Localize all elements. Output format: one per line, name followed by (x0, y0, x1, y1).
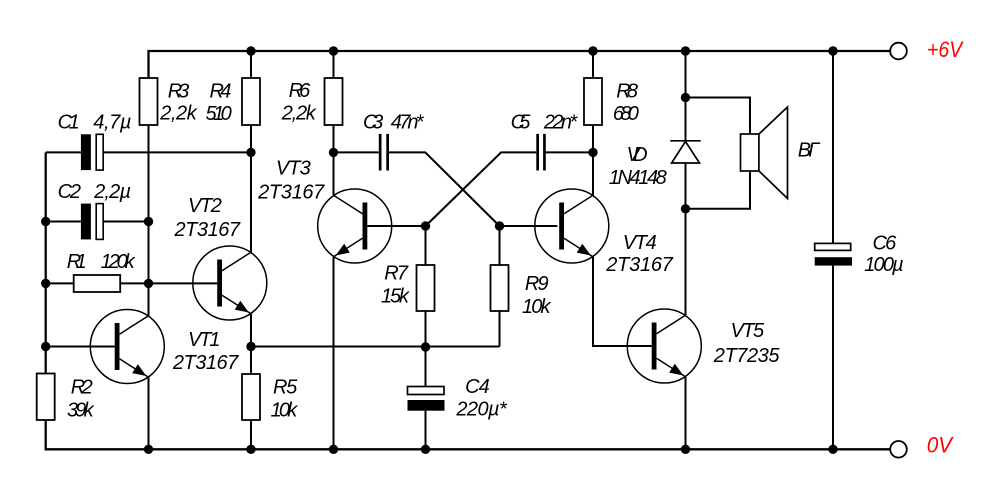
node R7 top / VT3 base (421, 221, 430, 230)
svg-text:VT2: VT2 (188, 195, 222, 217)
wire R9 bottom to C4 node (499, 311, 501, 347)
wire speaker top branch (686, 98, 751, 135)
wire C1 row from left rail to node at R4 column (46, 151, 251, 153)
wire speaker bottom branch (686, 171, 751, 209)
resistor R8 680 (584, 78, 602, 125)
svg-text:R5: R5 (273, 377, 298, 399)
resistor R6 2,2k (325, 78, 343, 125)
svg-text:C2: C2 (58, 181, 81, 203)
wire C4 top lead (425, 347, 427, 387)
svg-text:C4: C4 (465, 376, 490, 398)
wire R4 column: R4 bottom to VT2 collector (250, 125, 252, 252)
resistor R3 2,2k (140, 78, 158, 125)
node R6/C3/VT3 collector (329, 148, 338, 157)
svg-text:R9: R9 (525, 273, 549, 295)
node R5 bottom rail (246, 445, 255, 454)
node VT1 base left rail (41, 342, 50, 351)
node speaker top (681, 93, 690, 102)
svg-text:22n*: 22n* (543, 112, 579, 134)
svg-text:10k: 10k (271, 400, 299, 422)
resistor R1 120k (74, 275, 121, 292)
svg-text:R8: R8 (616, 80, 638, 102)
wire emitter node to C4 node and on to R9 bottom corner (251, 346, 500, 348)
wire bottom 0V rail (46, 420, 890, 449)
svg-text:39k: 39k (67, 400, 95, 422)
svg-text:100µ: 100µ (864, 254, 903, 276)
node R1/VT2 base/VT1 collector (144, 279, 153, 288)
wire R9 top lead (499, 226, 501, 265)
svg-text:47n*: 47n* (391, 112, 425, 134)
wire VT2 emitter to R5, node (250, 314, 252, 374)
wire R8 bottom to VT4 collector (592, 125, 594, 195)
svg-text:2T3167: 2T3167 (257, 182, 325, 204)
svg-text:2T3167: 2T3167 (174, 219, 241, 241)
wire R3 bottom to C2/R1/VT1 column (148, 125, 150, 316)
transistor VT3 2T3167 (mirrored) (318, 189, 392, 263)
svg-text:R4: R4 (210, 80, 232, 102)
wire C3 right lead crossing down to VT4 base node (389, 152, 500, 226)
wire VT5 emitter to bottom rail (685, 377, 687, 449)
node VT5 emitter bottom rail (681, 445, 690, 454)
node C6 top rail (828, 46, 837, 55)
node R6 top rail (329, 46, 338, 55)
svg-text:C3: C3 (363, 112, 383, 134)
wire C5 right lead to R8 node (546, 151, 593, 153)
wire C5 left lead crossing down to VT3 base node (426, 152, 537, 226)
svg-text:VD: VD (627, 144, 648, 166)
node R8 top rail (588, 46, 597, 55)
capacitor C1 4,7u plates (81, 134, 91, 170)
wire diode column from +6V rail down to VT5 collector (685, 51, 687, 315)
resistor R9 10k (491, 265, 509, 311)
resistor R7 15k (417, 265, 435, 311)
svg-text:510: 510 (206, 103, 232, 125)
svg-text:680: 680 (613, 103, 639, 125)
wire VT4 base from node (500, 225, 558, 227)
resistor R4 510 (242, 78, 260, 125)
CAPACITORS (81, 134, 852, 411)
wire R5 bottom to rail (250, 420, 252, 449)
node diode top rail (681, 46, 690, 55)
node C4 bottom rail (421, 445, 430, 454)
node C2/R3 column (144, 217, 153, 226)
svg-text:2,2k: 2,2k (159, 103, 198, 125)
node VT3 emitter bottom rail (329, 445, 338, 454)
wire C6 column top (832, 51, 834, 243)
svg-text:220µ*: 220µ* (455, 399, 508, 421)
transistor VT5 2T7235 (627, 309, 701, 383)
node R4 top rail (246, 46, 255, 55)
wire R4/R6/R8 top leads from +6V rail (251, 51, 593, 78)
resistor R5 10k (242, 374, 260, 420)
wire R6 bottom to VT3 collector (333, 125, 335, 195)
wire R1 right to VT2 base (120, 282, 217, 284)
svg-text:VT5: VT5 (731, 320, 765, 342)
svg-text:R1: R1 (67, 251, 87, 273)
RESISTORS (37, 78, 602, 420)
svg-text:4,7µ: 4,7µ (93, 112, 131, 134)
svg-text:2T3167: 2T3167 (172, 352, 239, 374)
wire VT3 emitter to bottom rail (333, 257, 335, 450)
wire VT1 base from left rail (46, 346, 115, 348)
wire R7 leads (425, 226, 427, 347)
wire R1 left on rail (46, 282, 74, 284)
resistor R2 39k (37, 374, 55, 421)
wire left rail C1/C2/R1/VT1-base column (45, 152, 47, 373)
node speaker bottom / VT5 collector (681, 204, 690, 213)
svg-text:C1: C1 (58, 112, 80, 134)
svg-text:VT3: VT3 (276, 158, 311, 180)
node C1/R4/VT2 collector (246, 148, 255, 157)
svg-text:+6V: +6V (927, 37, 964, 62)
svg-text:2,2µ: 2,2µ (93, 181, 131, 203)
svg-text:VT4: VT4 (623, 232, 657, 254)
svg-text:R7: R7 (384, 263, 409, 285)
speaker BG (741, 107, 788, 199)
wire C4 bottom lead (425, 411, 427, 450)
svg-text:2T3167: 2T3167 (605, 254, 673, 276)
wire VT1 emitter to bottom rail (148, 377, 150, 449)
svg-text:VT1: VT1 (188, 329, 220, 351)
terminal 0V (890, 441, 907, 458)
transistor VT4 2T3167 (535, 189, 609, 263)
node VT1 emitter bottom rail (144, 445, 153, 454)
capacitor C4 220u plates (408, 387, 445, 395)
node C6 bottom rail (828, 445, 837, 454)
svg-text:120k: 120k (101, 251, 136, 273)
svg-text:2,2k: 2,2k (281, 103, 317, 125)
capacitor C6 100u plates (815, 243, 851, 250)
diode VD 1N4148 (670, 141, 700, 163)
node R1 left rail (41, 279, 50, 288)
svg-text:15k: 15k (381, 286, 410, 308)
capacitor C3 47n plates (379, 134, 382, 171)
capacitor C5 22n plates (536, 134, 539, 171)
node VT2 emitter / R5 top (246, 342, 255, 351)
wire C2 to column x148 (46, 221, 149, 223)
terminal +6V (890, 43, 907, 60)
node C2 left rail (41, 217, 50, 226)
transistor VT1 2T3167 (90, 310, 164, 384)
svg-text:0V: 0V (927, 433, 955, 458)
svg-text:C6: C6 (873, 233, 898, 255)
capacitor C2 2,2u plates (81, 204, 91, 240)
node R8/C5/VT4 collector (588, 148, 597, 157)
svg-text:C5: C5 (511, 112, 532, 134)
node R9 top / VT4 base (495, 221, 504, 230)
wire C6 column bottom (832, 266, 834, 450)
svg-text:R3: R3 (168, 80, 189, 102)
wire VT4 emitter down and right to VT5 base (593, 257, 652, 346)
svg-text:R6: R6 (289, 80, 312, 102)
svg-text:1N4148: 1N4148 (609, 167, 667, 189)
svg-text:2T7235: 2T7235 (713, 345, 781, 367)
wire VT3 base to R7 node (367, 225, 425, 227)
wire top +6V rail (149, 51, 891, 78)
svg-text:ВГ: ВГ (798, 140, 822, 162)
node R7 bottom / C4 top (421, 342, 430, 351)
svg-text:R2: R2 (71, 377, 93, 399)
wire C3 left lead (334, 151, 379, 153)
svg-text:10k: 10k (522, 296, 552, 318)
transistor VT2 2T3167 (193, 246, 267, 320)
